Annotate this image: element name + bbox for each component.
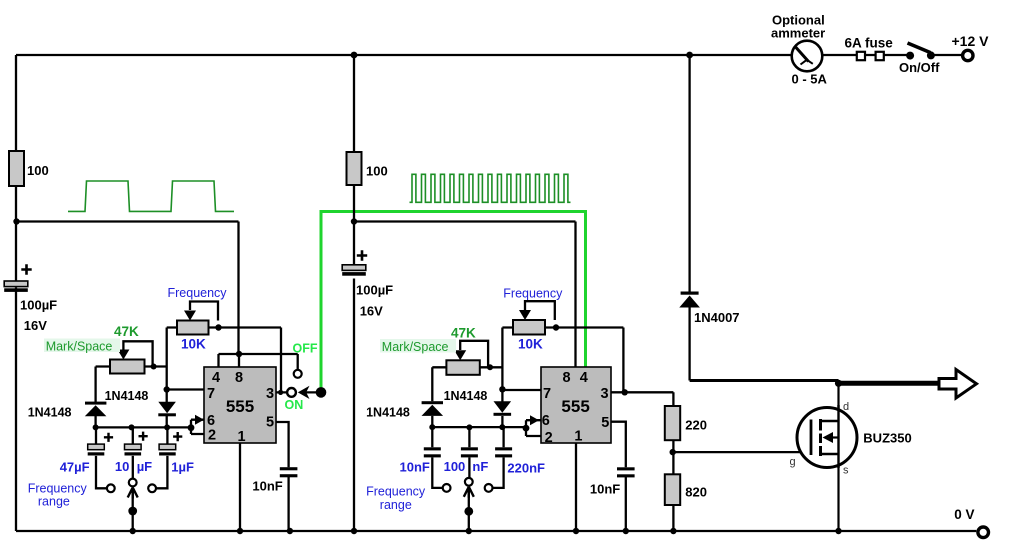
svg-text:1N4148: 1N4148 bbox=[28, 406, 72, 420]
svg-text:ON: ON bbox=[285, 398, 304, 412]
svg-text:g: g bbox=[790, 456, 796, 468]
svg-text:OFF: OFF bbox=[293, 342, 318, 356]
svg-text:Frequency: Frequency bbox=[366, 485, 426, 499]
svg-text:1N4148: 1N4148 bbox=[444, 389, 488, 403]
svg-text:4: 4 bbox=[580, 370, 588, 386]
svg-text:555: 555 bbox=[561, 397, 589, 416]
svg-text:d: d bbox=[843, 401, 849, 413]
svg-text:220: 220 bbox=[685, 418, 707, 433]
svg-text:s: s bbox=[843, 465, 849, 477]
svg-text:16V: 16V bbox=[24, 318, 47, 333]
svg-text:220nF: 220nF bbox=[507, 461, 545, 476]
svg-text:10K: 10K bbox=[518, 337, 543, 352]
svg-text:6A fuse: 6A fuse bbox=[845, 36, 894, 51]
svg-text:1N4148: 1N4148 bbox=[366, 406, 410, 420]
svg-text:7: 7 bbox=[543, 386, 551, 402]
svg-text:nF: nF bbox=[472, 459, 488, 474]
svg-text:1N4148: 1N4148 bbox=[105, 389, 149, 403]
svg-text:555: 555 bbox=[226, 397, 254, 416]
svg-text:100µF: 100µF bbox=[20, 298, 57, 313]
svg-text:10K: 10K bbox=[181, 337, 206, 352]
svg-text:5: 5 bbox=[266, 415, 274, 431]
svg-text:10nF: 10nF bbox=[590, 482, 620, 497]
svg-text:100: 100 bbox=[366, 164, 388, 179]
svg-text:2: 2 bbox=[208, 428, 216, 444]
svg-text:3: 3 bbox=[600, 386, 608, 402]
svg-text:ammeter: ammeter bbox=[771, 26, 825, 41]
svg-text:1: 1 bbox=[574, 429, 582, 445]
svg-text:range: range bbox=[380, 498, 412, 512]
svg-text:4: 4 bbox=[212, 370, 220, 386]
svg-text:7: 7 bbox=[207, 386, 215, 402]
svg-text:10: 10 bbox=[115, 459, 129, 474]
svg-text:BUZ350: BUZ350 bbox=[863, 431, 911, 446]
svg-text:100: 100 bbox=[444, 459, 466, 474]
svg-text:1: 1 bbox=[237, 429, 245, 445]
svg-text:47K: 47K bbox=[451, 326, 476, 341]
svg-text:100: 100 bbox=[27, 163, 49, 178]
svg-text:1µF: 1µF bbox=[171, 460, 194, 475]
svg-text:range: range bbox=[38, 495, 70, 509]
svg-text:47K: 47K bbox=[114, 324, 139, 339]
svg-text:16V: 16V bbox=[360, 304, 383, 319]
svg-text:+12 V: +12 V bbox=[952, 33, 990, 49]
svg-text:µF: µF bbox=[137, 459, 152, 474]
svg-text:Mark/Space: Mark/Space bbox=[382, 340, 449, 354]
svg-text:3: 3 bbox=[266, 386, 274, 402]
svg-text:6: 6 bbox=[542, 413, 550, 429]
svg-text:Frequency: Frequency bbox=[168, 286, 228, 300]
svg-text:5: 5 bbox=[601, 415, 609, 431]
svg-text:Frequency: Frequency bbox=[28, 482, 88, 496]
svg-text:8: 8 bbox=[235, 370, 243, 386]
svg-text:Mark/Space: Mark/Space bbox=[46, 340, 113, 354]
svg-text:10nF: 10nF bbox=[252, 479, 282, 494]
svg-text:820: 820 bbox=[685, 485, 707, 500]
svg-text:1N4007: 1N4007 bbox=[694, 310, 740, 325]
svg-text:2: 2 bbox=[545, 430, 553, 446]
svg-text:100µF: 100µF bbox=[356, 283, 393, 298]
svg-text:8: 8 bbox=[563, 370, 571, 386]
svg-text:0 - 5A: 0 - 5A bbox=[792, 72, 828, 87]
svg-text:0 V: 0 V bbox=[954, 507, 974, 522]
svg-text:47µF: 47µF bbox=[60, 460, 90, 475]
svg-text:On/Off: On/Off bbox=[899, 60, 940, 75]
svg-text:Frequency: Frequency bbox=[503, 287, 563, 301]
svg-text:10nF: 10nF bbox=[400, 460, 430, 475]
